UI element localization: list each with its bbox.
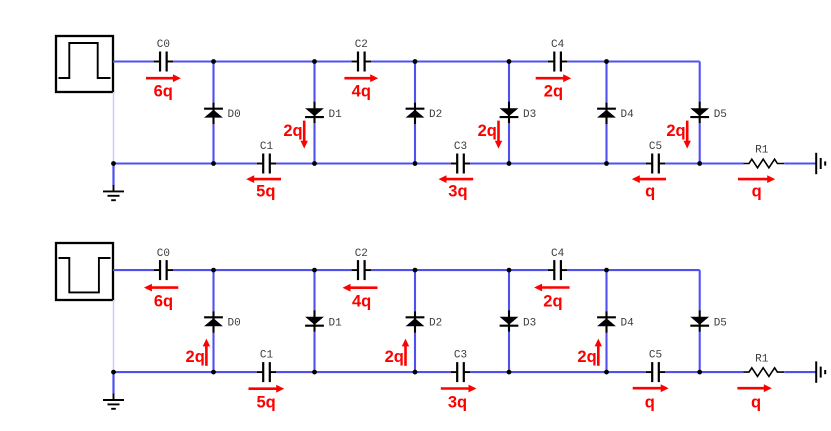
svg-text:q: q (645, 183, 655, 201)
svg-text:2q: 2q (544, 83, 563, 101)
wire (212, 270, 214, 311)
svg-text:4q: 4q (352, 292, 371, 310)
svg-text:q: q (752, 183, 762, 201)
wire (784, 371, 816, 373)
svg-text:C0: C0 (157, 39, 170, 51)
wire (113, 60, 154, 62)
wire (699, 332, 701, 372)
wire (173, 269, 352, 271)
svg-text:C4: C4 (551, 248, 565, 260)
current arrow q (right) (633, 384, 669, 392)
svg-text:6q: 6q (154, 292, 173, 310)
current arrow q (right, through R1) (737, 384, 771, 392)
svg-text:q: q (645, 393, 655, 411)
svg-text:D0: D0 (228, 109, 241, 121)
diode D1 (305, 310, 342, 332)
svg-text:D4: D4 (621, 109, 635, 121)
svg-text:D1: D1 (329, 318, 343, 330)
wire (276, 371, 451, 373)
resistor R1 (743, 353, 784, 376)
svg-text:C5: C5 (649, 350, 662, 362)
current arrow 5q (left) (246, 175, 281, 183)
current arrow 2q (down) (495, 121, 502, 149)
svg-text:2q: 2q (283, 122, 302, 140)
svg-text:5q: 5q (256, 183, 275, 201)
wire (371, 60, 548, 62)
capacitor C0 (154, 248, 173, 280)
svg-text:5q: 5q (256, 393, 275, 411)
wire (113, 269, 154, 271)
svg-text:C1: C1 (260, 141, 274, 153)
svg-text:6q: 6q (154, 83, 173, 101)
wire (605, 333, 607, 372)
wire (371, 269, 548, 271)
svg-text:2q: 2q (186, 348, 205, 366)
svg-text:C5: C5 (649, 141, 662, 153)
current arrow 6q (right) (146, 74, 181, 82)
wire (114, 162, 257, 164)
wire (699, 123, 701, 163)
node junctions bottom rail (111, 161, 702, 166)
svg-text:C2: C2 (355, 39, 368, 51)
wire (470, 371, 646, 373)
svg-text:q: q (751, 393, 761, 411)
wire (699, 270, 701, 310)
wire (114, 371, 257, 373)
current arrow 3q (right) (441, 385, 477, 393)
capacitor C5 (646, 350, 665, 383)
wire (212, 124, 214, 163)
current arrow 4q (right) (344, 74, 378, 82)
current arrow 6q (left) (144, 284, 178, 292)
svg-text:D2: D2 (429, 109, 442, 121)
wire (414, 62, 416, 103)
svg-text:2q: 2q (478, 122, 497, 140)
svg-text:C1: C1 (260, 350, 274, 362)
diode D1 (305, 102, 342, 124)
diode D4 (597, 103, 634, 125)
svg-text:D4: D4 (621, 318, 635, 330)
output terminal (right ground) (816, 153, 825, 174)
wire (414, 270, 416, 311)
wire (605, 270, 607, 311)
diode D5 (690, 102, 727, 124)
svg-text:C0: C0 (157, 248, 170, 260)
current arrow q (left) (632, 175, 666, 183)
diode D3 (500, 310, 537, 332)
capacitor C2 (352, 39, 371, 71)
pulse source V2 (negative pulse) (56, 243, 113, 300)
capacitor C0 (154, 39, 173, 71)
wire (212, 62, 214, 103)
capacitor C5 (646, 141, 665, 174)
capacitor C1 (257, 141, 276, 174)
current arrow 5q (right) (249, 385, 285, 393)
diode D0 (204, 103, 241, 125)
diode D2 (406, 311, 443, 333)
svg-text:R1: R1 (755, 353, 769, 365)
svg-text:C3: C3 (454, 350, 467, 362)
wire (508, 62, 510, 102)
current arrow 2q (up) (595, 339, 602, 366)
diode D5 (690, 310, 727, 332)
capacitor C2 (352, 248, 371, 280)
wire (665, 371, 743, 373)
wire (784, 162, 816, 164)
svg-text:R1: R1 (755, 145, 769, 157)
current arrow 2q (up) (402, 339, 409, 366)
wire (508, 123, 510, 163)
wire (276, 162, 451, 164)
svg-text:D1: D1 (329, 109, 343, 121)
node junctions bottom rail (111, 370, 702, 375)
current arrow 2q (right) (536, 74, 572, 82)
svg-text:D3: D3 (523, 109, 536, 121)
capacitor C4 (548, 39, 567, 71)
svg-text:2q: 2q (385, 348, 404, 366)
svg-text:C2: C2 (355, 248, 368, 260)
current arrow 2q (left) (534, 284, 570, 292)
svg-text:3q: 3q (448, 183, 467, 201)
wire (508, 270, 510, 310)
capacitor C4 (548, 248, 567, 280)
resistor R1 (743, 145, 784, 168)
wire (313, 123, 315, 163)
wire (313, 270, 315, 310)
svg-text:2q: 2q (666, 122, 685, 140)
current arrow 2q (up) (203, 339, 210, 366)
wire (699, 62, 701, 102)
diode D2 (406, 103, 443, 125)
svg-text:2q: 2q (577, 348, 596, 366)
capacitor C3 (451, 350, 470, 383)
ground (103, 164, 124, 201)
current arrow 3q (left) (439, 175, 474, 183)
wire (source return, faint) (113, 92, 115, 162)
wire (source return, faint) (113, 300, 115, 371)
wire (567, 269, 699, 271)
wire (313, 62, 315, 102)
wire (508, 332, 510, 372)
wire (212, 333, 214, 372)
current arrow 4q (left) (343, 284, 378, 292)
node junctions top rail (211, 268, 609, 273)
wire (414, 333, 416, 372)
svg-text:D3: D3 (523, 318, 536, 330)
node junctions top rail (211, 59, 609, 64)
capacitor C3 (451, 141, 470, 174)
output terminal (right ground) (816, 361, 825, 382)
svg-text:2q: 2q (543, 292, 562, 310)
ground (103, 372, 124, 409)
current arrow 2q (down) (684, 121, 691, 149)
wire (470, 162, 646, 164)
wire (567, 60, 699, 62)
svg-text:D2: D2 (429, 318, 442, 330)
svg-text:D0: D0 (228, 318, 241, 330)
wire (313, 332, 315, 372)
diode D0 (204, 311, 241, 333)
svg-text:4q: 4q (352, 83, 371, 101)
pulse source V1 (positive pulse) (56, 36, 113, 92)
wire (173, 60, 352, 62)
diode D4 (597, 311, 634, 333)
capacitor C1 (257, 350, 276, 383)
svg-text:C3: C3 (454, 141, 467, 153)
svg-text:D5: D5 (714, 109, 727, 121)
wire (605, 62, 607, 103)
svg-text:D5: D5 (714, 318, 727, 330)
wire (605, 124, 607, 163)
svg-text:3q: 3q (448, 393, 467, 411)
svg-text:C4: C4 (551, 39, 565, 51)
wire (665, 162, 743, 164)
current arrow 2q (down) (301, 121, 308, 149)
diode D3 (500, 102, 537, 124)
current arrow q (right, through R1) (738, 175, 775, 183)
wire (414, 124, 416, 163)
